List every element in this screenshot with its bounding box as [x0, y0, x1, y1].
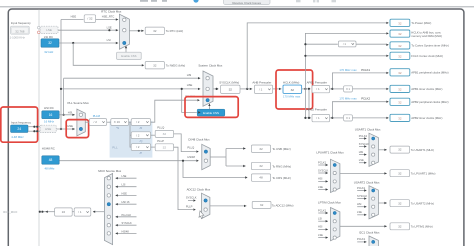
wire RTC CSS arrow: [125, 46, 127, 52]
output box To USART1: [390, 146, 410, 153]
output box FCLK Cortex clock: [390, 52, 410, 59]
toolbar bottom separator: [0, 6, 474, 7]
arrowhead cortex timer: [386, 44, 388, 46]
wire USART1 out: [378, 149, 386, 151]
output box To USB: [251, 145, 270, 152]
wire HSI48 to CRS: [183, 161, 246, 178]
output box To RNG: [251, 162, 270, 169]
svg-text:LSI: LSI: [318, 217, 322, 221]
svg-text:SYSCLK: SYSCLK: [186, 195, 197, 199]
mux LPUART1: [331, 159, 340, 192]
svg-text:170 MHz max: 170 MHz max: [339, 97, 357, 101]
arrowhead APB1 timer: [386, 88, 388, 90]
svg-text:PLLP: PLLP: [186, 204, 193, 208]
wire Q to PLLQ box: [151, 134, 155, 136]
radio PLL HSI: [79, 113, 82, 116]
junction FCLK branch: [304, 55, 306, 57]
svg-text:Input frequency: Input frequency: [11, 21, 31, 25]
arrowhead LPUART1 SYSCLK: [326, 172, 328, 174]
arrowhead APB2 prescaler in: [309, 117, 311, 119]
svg-text:/R: /R: [140, 126, 143, 130]
svg-text:PCLK1: PCLK1: [318, 160, 327, 164]
mux LPTIM: [331, 208, 340, 241]
arrowhead MCO LSE: [115, 177, 117, 179]
svg-text:PCLK1: PCLK1: [357, 186, 366, 190]
svg-text:To LPUART1 (MHz): To LPUART1 (MHz): [411, 172, 436, 176]
wire LPUART1 input HSI: [318, 180, 328, 182]
svg-text:HSE: HSE: [187, 83, 193, 87]
arrowhead MCO SYSCLK: [115, 224, 117, 226]
arrowhead HSI48 into CK48: [196, 160, 198, 162]
svg-text:HSI: HSI: [68, 110, 73, 114]
wire PLLR to system mux riser: [151, 100, 197, 122]
junction osc-in b: [36, 126, 38, 128]
svg-text:ADC12 Clock Mux: ADC12 Clock Mux: [187, 187, 211, 191]
wire USART1 input SYSCLK: [359, 146, 366, 148]
radio RTC LSI (selected): [123, 41, 126, 44]
wire APB1 to X1: [332, 88, 343, 90]
arrowhead PLLQ into CK48 mux: [196, 150, 198, 152]
junction SYSCLK split: [246, 88, 248, 90]
svg-text:CK48 Clock Mux: CK48 Clock Mux: [188, 137, 210, 141]
junction HSE bus to sysmux: [60, 88, 62, 90]
dropdown MCO divider /1: [74, 208, 91, 216]
svg-text:To LPTIM1 (MHz): To LPTIM1 (MHz): [411, 225, 433, 229]
svg-text:1-1000 KHz: 1-1000 KHz: [10, 35, 26, 39]
wire HCLK to FCLK: [305, 55, 386, 57]
svg-text:Input frequency: Input frequency: [11, 121, 31, 125]
wire APB2 to X1: [332, 117, 343, 119]
svg-text:To IWDG (kHz): To IWDG (kHz): [166, 63, 185, 67]
wire SYSCLK to AHB prescaler: [240, 88, 252, 90]
svg-text:/ 1: / 1: [78, 210, 82, 214]
svg-text:To USART1 (MHz): To USART1 (MHz): [411, 148, 434, 152]
svg-text:APB1 timer clocks (MHz): APB1 timer clocks (MHz): [411, 87, 442, 91]
radio USART2 SYSCLK: [372, 197, 375, 200]
svg-text:LSE: LSE: [318, 185, 323, 189]
svg-text:HSE_RTC: HSE_RTC: [102, 14, 115, 18]
wire CK48 out: [210, 156, 226, 158]
dropdown APB1 prescaler /1: [312, 85, 330, 92]
wire LSI to RTC mux: [59, 42, 118, 44]
radio sys HSE: [206, 87, 209, 90]
arrowhead USART2 PCLK1: [364, 189, 366, 191]
wire LPUART1 input PCLK1: [318, 164, 328, 166]
PLL panel background: [110, 121, 153, 158]
svg-text:32: 32: [398, 32, 402, 36]
radio LPTIM LSE: [333, 236, 336, 239]
svg-text:X 1: X 1: [346, 87, 351, 91]
svg-text:APB2 timer clocks (MHz): APB2 timer clocks (MHz): [411, 116, 442, 120]
svg-text:HSE: HSE: [45, 127, 51, 131]
svg-text:HSI: HSI: [357, 202, 362, 206]
output box To USART2: [390, 200, 410, 207]
multiplier PLLN x16: [111, 119, 129, 126]
svg-text:/P: /P: [140, 151, 143, 155]
pin anchor OSC32_OUT: [38, 31, 41, 34]
radio RTC LSE: [123, 29, 126, 32]
wire SYSCLK to Power riser: [247, 23, 386, 89]
junction osc-in a: [33, 126, 35, 128]
svg-text:LSI: LSI: [107, 38, 111, 42]
wire LPUART1 input SYSCLK: [318, 172, 328, 174]
svg-text:SYSCLK: SYSCLK: [318, 168, 329, 172]
output box PLLQ: [155, 130, 173, 137]
svg-text:32: 32: [229, 87, 233, 91]
svg-text:PCLK1: PCLK1: [357, 237, 366, 241]
svg-text:LSE: LSE: [122, 174, 127, 178]
wire M to N: [107, 121, 111, 123]
output box PLLP: [155, 144, 173, 151]
toolbar button Resolve Clock Issues: [224, 0, 271, 5]
svg-text:System Clock Mux: System Clock Mux: [198, 63, 222, 67]
mux RTC clock: [119, 14, 129, 49]
wire X1 to APB1 timer box: [353, 88, 387, 90]
wire HCLK riser: [305, 33, 386, 89]
svg-text:HSI48 RC: HSI48 RC: [42, 147, 55, 151]
pin anchor OSC32_IN: [38, 26, 41, 29]
arrowhead LPTIM PCLK1: [326, 212, 328, 214]
svg-text:/ 2: / 2: [136, 120, 140, 124]
output box APB1 timer clocks: [390, 85, 410, 92]
radio LPUART1 HSI: [333, 180, 336, 183]
svg-text:170 MHz max: 170 MHz max: [339, 68, 357, 72]
svg-text:48 MHz: 48 MHz: [45, 166, 56, 170]
radio USART1 HSI b: [372, 153, 375, 156]
svg-text:16: 16: [49, 113, 53, 117]
arrowhead MCO HSE: [115, 194, 117, 196]
svg-text:PLLQ: PLLQ: [187, 146, 194, 150]
radio MCO HSE: [107, 194, 110, 197]
svg-text:HSI: HSI: [359, 150, 364, 154]
arrowhead USART2 SYSCLK: [364, 197, 366, 199]
output box To RTC: [145, 27, 164, 34]
mux PLL source: [77, 109, 85, 136]
wire LPTIM out: [340, 225, 387, 227]
arrowhead USART2 LSE: [364, 214, 366, 216]
wire MCO mux output: [93, 211, 104, 213]
wire MCO input LSI: [116, 186, 137, 188]
svg-text:X 16: X 16: [114, 120, 121, 124]
svg-text:LPTIM Clock Mux: LPTIM Clock Mux: [318, 201, 341, 205]
output box To Cortex System timer: [390, 42, 410, 49]
value box SYSCLK: [221, 85, 240, 93]
svg-text:/ 2: / 2: [94, 120, 98, 124]
arrowhead HSI into system mux: [198, 77, 200, 79]
oscillator HSI48 RC 48: [42, 156, 59, 164]
junction HSI48 CRS branch: [182, 160, 184, 162]
svg-text:memory and DMA (MHz): memory and DMA (MHz): [411, 34, 442, 38]
radio PLL HSE (selected): [79, 127, 82, 130]
wire USART1 input PCLK2: [359, 138, 366, 140]
svg-text:/ 1: / 1: [259, 87, 263, 91]
svg-text:Resolve Clock Issues: Resolve Clock Issues: [232, 1, 261, 5]
svg-text:To ADC12 (MHz): To ADC12 (MHz): [272, 203, 294, 207]
junction APB1 split: [331, 88, 333, 90]
arrowhead MCO pin: [45, 211, 47, 213]
svg-text:To Cortex System timer (MHz): To Cortex System timer (MHz): [411, 44, 449, 48]
svg-text:To Power (MHz): To Power (MHz): [411, 21, 431, 25]
oscillator HSE (disabled): [40, 125, 56, 132]
arrowhead USART1 HSI: [364, 153, 366, 155]
output box To Power: [390, 19, 410, 26]
arrowhead LPUART1 HSI: [326, 180, 328, 182]
arrowhead CRS: [245, 176, 247, 178]
dropdown APB2 prescaler /1: [312, 114, 330, 121]
wire X1 to APB2 timer box: [353, 117, 387, 119]
svg-text:HCLK (MHz): HCLK (MHz): [283, 80, 299, 84]
svg-text:PLLCLK: PLLCLK: [122, 213, 132, 217]
mux USART2: [369, 186, 378, 219]
junction HSE bus at osc wire: [60, 128, 62, 130]
svg-text:APB2 peripheral clocks (MHz): APB2 peripheral clocks (MHz): [411, 100, 448, 104]
wire HSE osc-out: [28, 130, 40, 132]
svg-text:HSE: HSE: [71, 15, 77, 19]
output box To IWDG: [145, 62, 164, 69]
output box To ADC12: [252, 201, 271, 208]
svg-text:32.768: 32.768: [15, 29, 25, 33]
svg-text:16 MHz: 16 MHz: [44, 119, 55, 123]
divider PLLQ /2: [131, 132, 150, 139]
arrowhead LPTIM LSI: [326, 220, 328, 222]
wire LPUART1 input LSE: [318, 189, 328, 191]
wire HSE to div32: [61, 19, 84, 21]
svg-text:PLLM: PLLM: [93, 114, 101, 118]
svg-text:FCLK Cortex clock (MHz): FCLK Cortex clock (MHz): [411, 54, 443, 58]
wire MCO input LSE: [116, 177, 137, 179]
radio USART1 SYSCLK b: [372, 145, 375, 148]
svg-text:Enable CSS: Enable CSS: [121, 54, 136, 58]
button Enable CSS (RTC, disabled): [117, 52, 142, 59]
svg-text:LSI: LSI: [122, 183, 126, 187]
wire LPTIM input LSI: [318, 220, 328, 222]
button Enable CSS (system, active): [197, 109, 225, 116]
red highlight HSE input frequency: [1, 107, 38, 142]
junction osc-out a: [33, 130, 35, 132]
mux USART1: [369, 133, 378, 166]
radio USART2 LSE: [372, 213, 375, 216]
svg-text:HSI: HSI: [187, 73, 192, 77]
svg-text:PCLK1: PCLK1: [361, 68, 370, 72]
wire P to PLLP box: [151, 146, 155, 148]
radio MCO PLLCLK: [107, 215, 110, 218]
wire PLL internal branch: [130, 122, 131, 147]
arrowhead HCLK AHB: [386, 32, 388, 34]
junction RTC out: [138, 30, 140, 32]
radio LPTIM LSI: [333, 220, 336, 223]
arrowhead HSE into system mux: [198, 88, 200, 90]
arrowhead To Power: [386, 22, 388, 24]
oscillator HSI RC 16: [42, 111, 59, 119]
wire USART2 input HSI: [357, 206, 366, 208]
wire LSE to RTC mux: [58, 29, 118, 31]
svg-text:APB2 Prescaler: APB2 Prescaler: [307, 107, 327, 111]
wire LPTIM input PCLK1: [318, 212, 328, 214]
junction HCLK up-branch: [304, 88, 306, 90]
value box MCO: [55, 208, 73, 216]
arrowhead FCLK: [386, 55, 388, 57]
wire ADC12 out: [210, 205, 247, 207]
junction HSI bus at osc wire: [63, 114, 65, 116]
svg-text:PCLK2: PCLK2: [361, 97, 370, 101]
svg-text:32 kHz: 32 kHz: [44, 50, 54, 54]
wire PLL mux out to M: [85, 121, 89, 123]
svg-text:PLLQ: PLLQ: [157, 126, 165, 130]
wire to USB box: [226, 147, 246, 149]
wire MCO input SYSCLK: [116, 224, 137, 226]
toolbar icon 2: [313, 0, 319, 2]
junction APB2 split: [331, 117, 333, 119]
svg-text:HSI 16: HSI 16: [122, 200, 130, 204]
arrowhead SYSCLK into ADC12: [193, 199, 195, 201]
arrowhead LPUART1 LSE: [326, 188, 328, 190]
wire HSE vertical bus: [60, 20, 62, 130]
svg-text:To RNG (MHz): To RNG (MHz): [272, 164, 291, 168]
wire USART2 input LSE: [357, 214, 366, 216]
wire USART1 input HSI: [359, 154, 366, 156]
oscillator LSE (disabled): [40, 26, 58, 33]
radio MCO HSI 16 (selected): [107, 203, 110, 206]
wire MCO to pin: [43, 211, 55, 213]
svg-text:APB1 Prescaler: APB1 Prescaler: [307, 80, 327, 84]
sidebar divider line: [38, 10, 40, 246]
wire system mux out: [213, 88, 218, 90]
arrowhead APB2 periph: [386, 101, 388, 103]
radio MCO HSI48: [107, 232, 110, 235]
wire HSE osc-in: [28, 126, 40, 128]
toolbar background: [0, 0, 474, 7]
arrowhead into MCO divider: [93, 211, 95, 213]
radio LPTIM HSI: [333, 228, 336, 231]
svg-text:LSE: LSE: [359, 158, 364, 162]
svg-text:32: 32: [398, 71, 402, 75]
arrowhead USART1 LSE: [364, 162, 366, 164]
svg-text:/Q: /Q: [140, 139, 143, 143]
radio LPUART1 PCLK1 (selected): [333, 163, 336, 166]
wire HSI to system mux: [64, 77, 201, 79]
svg-text:32: 32: [291, 88, 295, 92]
radio USART1 PCLK2 b (selected): [372, 137, 375, 140]
svg-text:/ 1: / 1: [316, 116, 320, 120]
arrowhead LPUART1 PCLK1: [326, 164, 328, 166]
arrowhead MCO HSI48: [115, 232, 117, 234]
wire CK48 split: [225, 149, 227, 167]
radio CK48 HSI48: [204, 159, 207, 162]
divider /32 box: [84, 15, 95, 23]
red highlight PLL source HSE: [66, 120, 88, 138]
output box To LPUART1: [390, 170, 410, 177]
junction HCLK down-branch: [308, 88, 310, 90]
svg-text:LSE: LSE: [46, 28, 52, 32]
svg-text:/ 32: / 32: [87, 17, 92, 21]
svg-text:AHB Prescaler: AHB Prescaler: [252, 80, 271, 84]
svg-text:32: 32: [398, 116, 402, 120]
wire I2C1 input PCLK1: [357, 241, 366, 243]
junction LSI wire: [72, 42, 74, 44]
svg-text:32: 32: [260, 203, 264, 207]
wire USART2 input PCLK1: [357, 190, 366, 192]
svg-text:HSI RC: HSI RC: [44, 106, 54, 110]
radio LPTIM PCLK1 (selected): [333, 211, 336, 214]
arrowhead MCO PLLCLK: [115, 216, 117, 218]
svg-text:HSE: HSE: [67, 124, 73, 128]
mux system clock: [203, 71, 213, 106]
radio CK48 PLLQ (selected): [204, 150, 207, 153]
arrowhead MCO HSI 16: [115, 203, 117, 205]
wire CSS branch from HSE: [182, 89, 197, 113]
svg-text:SYSCLK: SYSCLK: [122, 221, 133, 225]
svg-text:X 1: X 1: [346, 116, 351, 120]
svg-text:To USB (MHz): To USB (MHz): [272, 147, 291, 151]
toolbar icon 1: [296, 0, 301, 2]
svg-text:PLL: PLL: [112, 146, 118, 150]
junction CSS branch: [181, 88, 183, 90]
svg-text:*N: *N: [116, 126, 119, 130]
svg-text:PLLP: PLLP: [157, 139, 164, 143]
svg-text:To CRS (MHz): To CRS (MHz): [272, 176, 291, 180]
radio LPUART1 LSE: [333, 188, 336, 191]
svg-text:/ 2: / 2: [136, 133, 140, 137]
svg-text:HSE: HSE: [122, 191, 128, 195]
wire HSI48 to CK48 mux: [59, 160, 196, 162]
red highlight HCLK: [276, 70, 313, 109]
wire USART2 out: [378, 202, 386, 204]
junction LSE wire: [108, 29, 110, 31]
dropdown cortex timer /1: [338, 41, 356, 47]
multiplier X1 (APB1 timers): [344, 86, 353, 92]
junction cortex branch: [304, 43, 306, 45]
svg-text:32: 32: [398, 224, 402, 228]
wire PLLQ to CK48 mux: [174, 134, 197, 152]
wire MCO input HSE: [116, 194, 137, 196]
svg-text:SYSCLK: SYSCLK: [359, 142, 370, 146]
output box APB2 peripheral clocks: [390, 98, 410, 105]
arrowhead USART1 SYSCLK: [364, 145, 366, 147]
radio USART2 HSI: [372, 205, 375, 208]
wire HCLK to APB2: [309, 89, 311, 118]
red highlight system PLLCLK + CSS: [185, 97, 238, 118]
mouse cursor: [199, 211, 204, 219]
wire HSE_RTC to mux: [96, 18, 119, 20]
radio ADC12 PLLP: [204, 208, 207, 211]
svg-text:I2C1 Clock Mux: I2C1 Clock Mux: [359, 230, 380, 234]
wire LPUART1 out: [340, 172, 387, 174]
radio USART2 PCLK1 (selected): [372, 189, 375, 192]
svg-text:32: 32: [398, 100, 402, 104]
dropdown AHB prescaler /1: [254, 85, 272, 93]
radio MCO SYSCLK: [107, 224, 110, 227]
output box APB2 timer clocks: [390, 114, 410, 121]
svg-text:HSI: HSI: [318, 225, 323, 229]
arrowhead USART2 HSI: [364, 206, 366, 208]
svg-text:LSE: LSE: [318, 233, 323, 237]
wire HCLK to cortex divider: [305, 43, 337, 45]
wire MCO divider to value box: [72, 211, 74, 213]
wire PLLP to ADC12 mux: [174, 147, 194, 209]
svg-text:32: 32: [398, 201, 402, 205]
radio RTC HSE_RTC: [123, 18, 126, 21]
input field LSE 32.768: [11, 26, 30, 34]
arrowhead CSS wire into button: [198, 111, 200, 113]
wire APB1 periph riser: [332, 73, 386, 89]
mux I2C1 (cut): [369, 236, 378, 246]
wire APB1 out: [330, 88, 333, 90]
junction APB2 row b: [308, 117, 310, 119]
svg-text:LPUART1 Clock Mux: LPUART1 Clock Mux: [316, 151, 344, 155]
wire MCO input HSI 16: [116, 203, 137, 205]
arrowhead PLLP into ADC12 mux: [193, 208, 195, 210]
output box APB1 peripheral clocks: [390, 69, 410, 76]
